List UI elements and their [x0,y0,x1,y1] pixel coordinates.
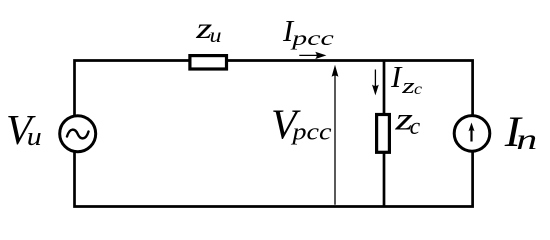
current source I_n [454,116,490,152]
svg-text:u: u [27,121,42,151]
svg-text:c: c [410,114,421,140]
label z_u [195,12,222,47]
label z_c [394,100,420,140]
arrow I_pcc (points right) [299,52,326,59]
arrow V_pcc (points up) [332,65,339,205]
label I_pcc [282,14,335,50]
label V_u [6,108,42,154]
svg-text:c: c [414,81,422,98]
svg-text:n: n [516,123,537,156]
wire: z_c branch vertical [383,61,386,207]
wire: outer circuit loop [75,61,473,207]
impedance z_c [377,115,390,153]
label V_pcc [271,102,332,148]
resistor z_u [190,56,227,69]
voltage source V_u [60,116,96,152]
svg-text:u: u [210,25,222,47]
svg-text:pcc: pcc [290,120,332,146]
arrow I_zc (points down) [372,70,379,96]
label I_n [504,109,538,156]
svg-text:pcc: pcc [289,26,334,50]
label I_zc [390,59,422,98]
svg-text:I: I [390,59,403,94]
